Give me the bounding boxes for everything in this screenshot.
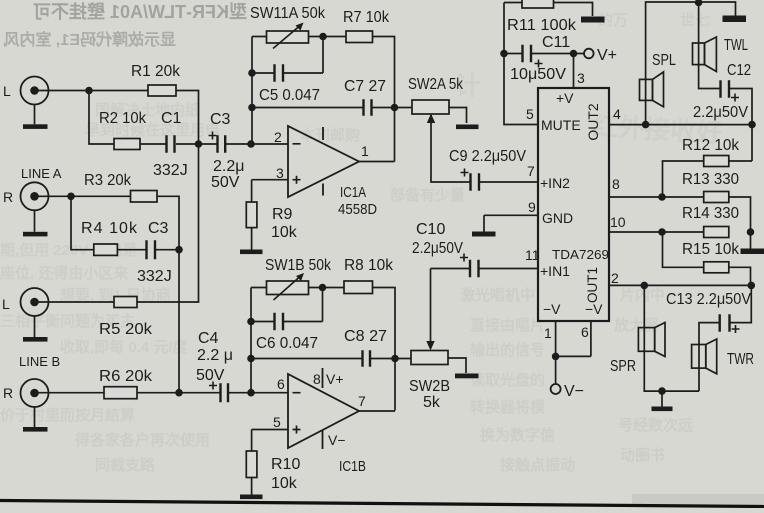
svg-text:C4: C4 <box>198 330 219 347</box>
svg-text:V+: V+ <box>597 47 617 64</box>
svg-text:2.2μ50V: 2.2μ50V <box>693 104 748 121</box>
svg-text:10μ50V: 10μ50V <box>510 66 566 83</box>
svg-text:R9: R9 <box>272 206 293 223</box>
svg-text:TDA7269: TDA7269 <box>552 247 609 262</box>
svg-text:R4 10k: R4 10k <box>81 220 138 237</box>
svg-text:同截支路: 同截支路 <box>95 456 156 474</box>
svg-text:SPL: SPL <box>652 52 676 69</box>
svg-text:接触点振动: 接触点振动 <box>500 456 575 474</box>
svg-text:V−: V− <box>564 383 584 400</box>
svg-text:3: 3 <box>577 70 585 86</box>
svg-text:本刊邮购: 本刊邮购 <box>300 126 360 144</box>
svg-text:座位, 还得由小区来: 座位, 还得由小区来 <box>0 264 129 282</box>
svg-text:转换器将模: 转换器将模 <box>470 398 546 416</box>
svg-text:R6 20k: R6 20k <box>99 368 153 385</box>
svg-text:C3: C3 <box>148 220 169 237</box>
svg-text:4558D: 4558D <box>338 201 377 218</box>
svg-text:R10: R10 <box>271 456 300 473</box>
svg-text:价于村里而按月结算: 价于村里而按月结算 <box>0 406 135 424</box>
svg-text:5: 5 <box>526 106 534 122</box>
svg-text:R5 20k: R5 20k <box>99 321 153 338</box>
svg-text:50V: 50V <box>196 367 225 384</box>
svg-text:5k: 5k <box>423 394 441 411</box>
svg-text:SW11A 50k: SW11A 50k <box>250 5 326 22</box>
svg-text:−V: −V <box>543 301 561 317</box>
svg-text:R11 100k: R11 100k <box>507 17 577 34</box>
svg-text:2.2 μ: 2.2 μ <box>197 347 233 364</box>
svg-text:得各家各户再次使用: 得各家各户再次使用 <box>74 431 210 449</box>
svg-text:332J: 332J <box>137 268 172 285</box>
svg-text:332J: 332J <box>153 162 188 179</box>
svg-text:2: 2 <box>274 129 282 145</box>
svg-text:8: 8 <box>313 371 321 387</box>
svg-text:部备有少量: 部备有少量 <box>390 186 465 204</box>
svg-text:世七: 世七 <box>680 11 710 29</box>
svg-text:3: 3 <box>276 165 284 181</box>
svg-text:5: 5 <box>273 414 281 430</box>
svg-text:型KFR-TLW/A01 壁挂不可: 型KFR-TLW/A01 壁挂不可 <box>33 1 247 22</box>
svg-text:7: 7 <box>358 393 366 409</box>
svg-text:收取,即每 0.4 元/度: 收取,即每 0.4 元/度 <box>60 338 189 356</box>
svg-text:1: 1 <box>361 143 369 159</box>
svg-text:SW2B: SW2B <box>409 378 450 395</box>
svg-text:50V: 50V <box>211 174 240 191</box>
svg-text:R2 10k: R2 10k <box>99 110 147 127</box>
svg-text:放大器: 放大器 <box>613 316 660 334</box>
svg-text:动圈书: 动圈书 <box>620 446 665 464</box>
svg-text:10k: 10k <box>271 475 298 492</box>
svg-text:R1 20k: R1 20k <box>131 63 181 80</box>
svg-text:2.2μ50V: 2.2μ50V <box>412 240 463 257</box>
svg-text:R14 330: R14 330 <box>682 205 739 222</box>
svg-text:R3 20k: R3 20k <box>84 172 132 189</box>
svg-text:10: 10 <box>610 214 626 230</box>
svg-text:V+: V+ <box>326 371 344 387</box>
svg-text:11: 11 <box>525 247 540 263</box>
svg-text:C3: C3 <box>210 111 231 128</box>
svg-text:读取光盘的: 读取光盘的 <box>470 371 545 389</box>
svg-text:激光唱机中: 激光唱机中 <box>460 286 535 304</box>
svg-text:R: R <box>3 189 13 205</box>
svg-text:SW2A 5k: SW2A 5k <box>408 76 464 93</box>
svg-text:+IN2: +IN2 <box>540 175 570 191</box>
svg-text:LINE A: LINE A <box>21 166 62 181</box>
svg-text:2.2μ: 2.2μ <box>213 158 244 175</box>
svg-text:C5 0.047: C5 0.047 <box>259 87 320 104</box>
svg-text:10k: 10k <box>271 224 298 241</box>
svg-text:号经数次远: 号经数次远 <box>618 416 693 434</box>
svg-text:6: 6 <box>277 376 285 392</box>
svg-text:C10: C10 <box>416 221 445 238</box>
svg-text:C7 27: C7 27 <box>344 78 386 95</box>
svg-text:IC1A: IC1A <box>340 184 366 201</box>
svg-text:C12: C12 <box>727 62 751 79</box>
svg-text:换为数字信: 换为数字信 <box>480 426 555 444</box>
svg-text:直接由唱片: 直接由唱片 <box>470 316 545 334</box>
svg-text:4: 4 <box>613 106 621 122</box>
svg-text:OUT1: OUT1 <box>585 267 600 303</box>
svg-text:R: R <box>3 385 13 401</box>
svg-text:+IN1: +IN1 <box>540 263 570 279</box>
svg-text:C11: C11 <box>542 34 570 51</box>
svg-text:L: L <box>3 83 11 99</box>
svg-text:TWR: TWR <box>727 351 754 368</box>
svg-text:C6 0.047: C6 0.047 <box>256 335 318 352</box>
svg-text:IC1B: IC1B <box>339 458 366 475</box>
svg-text:输出的信号: 输出的信号 <box>470 341 545 359</box>
svg-text:R7 10k: R7 10k <box>343 9 390 26</box>
svg-text:LINE B: LINE B <box>19 354 60 369</box>
svg-text:8: 8 <box>612 176 620 192</box>
svg-text:R12 10k: R12 10k <box>682 137 740 154</box>
svg-text:SW1B 50k: SW1B 50k <box>265 257 332 274</box>
svg-text:R8 10k: R8 10k <box>344 257 394 274</box>
svg-text:TWL: TWL <box>724 37 748 54</box>
svg-text:显示故障代码E1, 室内风: 显示故障代码E1, 室内风 <box>4 30 176 49</box>
svg-text:1: 1 <box>544 325 552 341</box>
svg-text:C8 27: C8 27 <box>344 328 387 345</box>
svg-text:L: L <box>2 296 10 312</box>
svg-text:C9 2.2μ50V: C9 2.2μ50V <box>449 148 526 165</box>
svg-text:MUTE: MUTE <box>541 117 581 133</box>
svg-text:2: 2 <box>611 270 619 286</box>
svg-text:V−: V− <box>328 432 346 448</box>
svg-text:C1: C1 <box>161 110 182 127</box>
svg-text:6: 6 <box>581 324 589 340</box>
svg-text:GND: GND <box>542 210 573 226</box>
svg-text:SPR: SPR <box>610 358 636 375</box>
svg-text:7: 7 <box>527 163 535 179</box>
svg-text:R13 330: R13 330 <box>682 171 739 188</box>
svg-text:9: 9 <box>528 199 536 215</box>
svg-text:+V: +V <box>556 90 574 106</box>
svg-text:C13 2.2μ50V: C13 2.2μ50V <box>666 291 751 308</box>
svg-text:R15 10k: R15 10k <box>682 241 740 258</box>
svg-text:OUT2: OUT2 <box>585 103 601 141</box>
